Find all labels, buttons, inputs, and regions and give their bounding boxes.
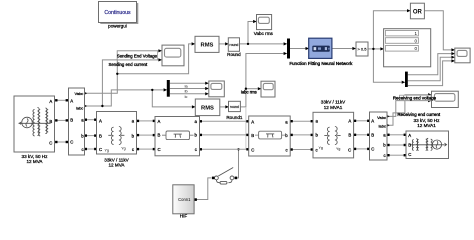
svg-text:Conn1: Conn1 [178,197,191,202]
svg-text:Yg: Yg [319,146,323,150]
svg-text:B: B [49,119,52,124]
svg-text:Sending end current: Sending end current [109,62,149,67]
svg-text:Receiving end current: Receiving end current [397,112,440,117]
svg-text:B: B [408,142,411,147]
svg-text:A: A [70,98,73,103]
svg-text:C: C [371,147,374,152]
svg-text:round: round [230,105,239,109]
svg-text:Ib: Ib [185,90,188,94]
svg-text:OR: OR [413,10,423,16]
svg-text:Round1: Round1 [226,115,243,120]
svg-text:B: B [371,133,374,138]
svg-text:> 0.5: > 0.5 [357,47,367,52]
svg-text:Sending End Voltage: Sending End Voltage [117,53,158,58]
svg-text:RMS: RMS [201,42,214,48]
svg-text:A: A [158,119,161,124]
svg-text:B: B [348,132,351,137]
svg-text:B: B [158,133,161,138]
svg-text:33kV / 11kV: 33kV / 11kV [321,100,346,105]
svg-text:Yg: Yg [105,149,109,153]
svg-text:12 MVA: 12 MVA [27,159,44,164]
svg-text:C: C [70,140,73,145]
svg-text:C: C [408,152,411,157]
svg-text:A: A [99,118,102,123]
svg-text:Ic: Ic [185,95,188,99]
svg-text:Function Fitting Neural Networ: Function Fitting Neural Network [289,61,353,66]
svg-text:A: A [408,133,411,138]
svg-text:Yg: Yg [121,147,125,151]
svg-text:A: A [251,119,254,124]
svg-text:C: C [49,141,52,146]
svg-text:Iabc: Iabc [378,124,386,129]
svg-text:A: A [49,99,52,104]
svg-text:Round: Round [227,52,241,57]
svg-text:A: A [348,118,351,123]
svg-text:Receiving end voltage: Receiving end voltage [393,96,437,101]
svg-text:C: C [348,148,351,153]
svg-text:Continuous: Continuous [104,10,131,16]
svg-text:Vabc rms: Vabc rms [254,31,274,36]
svg-text:Vabc: Vabc [377,115,386,120]
svg-text:12 MVA: 12 MVA [109,162,126,167]
svg-text:powergui: powergui [108,24,127,29]
svg-text:C: C [251,147,254,152]
svg-text:Vabc: Vabc [74,91,83,96]
svg-text:12 MVA1: 12 MVA1 [324,105,343,110]
svg-text:B: B [99,133,102,138]
svg-text:RMS: RMS [201,105,214,111]
svg-text:HIF: HIF [180,214,188,219]
svg-text:12 MVA1: 12 MVA1 [417,123,436,128]
svg-text:B: B [251,133,254,138]
svg-text:C: C [99,147,102,152]
svg-text:A: A [371,119,374,124]
svg-text:round: round [229,43,238,47]
svg-text:Yg: Yg [336,147,340,151]
svg-text:Iabc rms: Iabc rms [241,89,257,94]
svg-text:C: C [158,147,161,152]
svg-text:B: B [70,118,73,123]
svg-text:Iabc: Iabc [76,106,84,111]
